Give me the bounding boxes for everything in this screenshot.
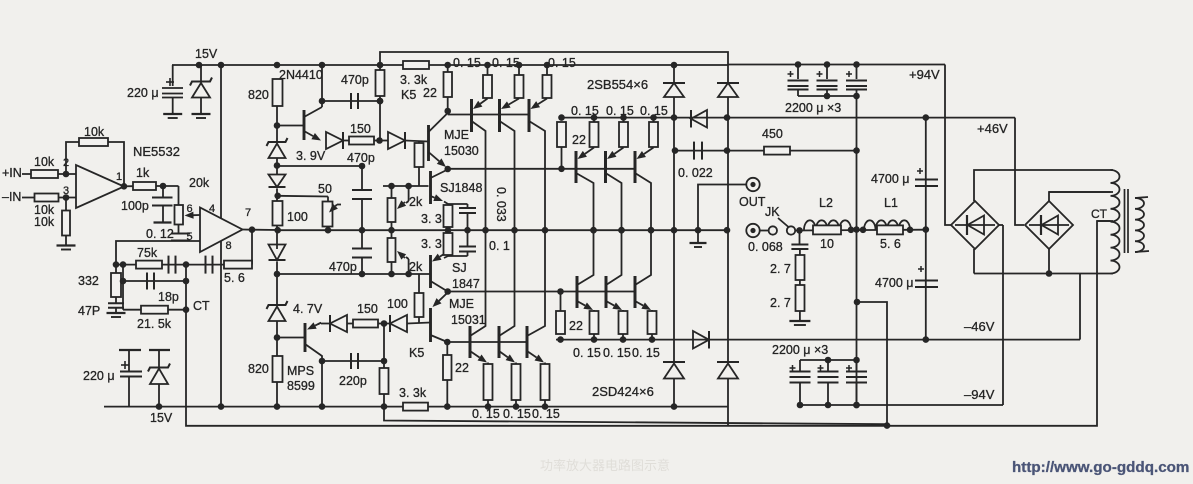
svg-text:4700 μ: 4700 μ (871, 172, 909, 186)
svg-text:0. 022: 0. 022 (678, 166, 713, 180)
svg-text:2SD424×6: 2SD424×6 (592, 384, 654, 399)
svg-text:2. 7: 2. 7 (770, 262, 791, 276)
svg-text:0. 1: 0. 1 (489, 239, 510, 253)
svg-text:1k: 1k (136, 166, 150, 180)
svg-text:CT: CT (1091, 207, 1108, 221)
svg-text:K5: K5 (409, 346, 424, 360)
svg-text:OUT: OUT (739, 195, 766, 209)
svg-text:50: 50 (318, 182, 332, 196)
svg-text:3. 3k: 3. 3k (400, 73, 428, 87)
svg-text:–IN: –IN (2, 190, 21, 204)
svg-text:1: 1 (116, 171, 122, 183)
svg-text:21. 5k: 21. 5k (137, 317, 172, 331)
svg-text:22: 22 (455, 361, 469, 375)
svg-text:0. 15: 0. 15 (573, 346, 601, 360)
svg-text:6: 6 (187, 203, 193, 215)
svg-text:+94V: +94V (909, 67, 940, 82)
svg-text:0. 15: 0. 15 (548, 56, 576, 70)
svg-text:20k: 20k (189, 176, 210, 190)
svg-text:22: 22 (572, 133, 586, 147)
svg-text:K5: K5 (401, 88, 416, 102)
svg-text:470p: 470p (329, 260, 357, 274)
svg-text:功率放大器电路图示意: 功率放大器电路图示意 (540, 458, 670, 473)
svg-text:75k: 75k (137, 246, 158, 260)
svg-text:470p: 470p (347, 151, 375, 165)
svg-text:220 μ: 220 μ (83, 369, 115, 383)
svg-text:150: 150 (357, 302, 378, 316)
svg-text:7: 7 (245, 207, 251, 219)
svg-text:2200 μ ×3: 2200 μ ×3 (772, 343, 828, 357)
svg-text:22: 22 (569, 319, 583, 333)
svg-text:5: 5 (187, 231, 193, 243)
svg-text:3. 3: 3. 3 (421, 237, 442, 251)
svg-text:15030: 15030 (444, 144, 479, 158)
svg-text:0. 15: 0. 15 (632, 346, 660, 360)
svg-text:10k: 10k (34, 215, 55, 229)
svg-text:2k: 2k (409, 260, 423, 274)
svg-text:15V: 15V (195, 47, 218, 61)
svg-text:2200 μ ×3: 2200 μ ×3 (785, 101, 841, 115)
svg-text:SJ: SJ (452, 261, 467, 275)
svg-text:10: 10 (820, 237, 834, 251)
svg-text:100p: 100p (121, 199, 149, 213)
svg-text:4700 μ: 4700 μ (875, 276, 913, 290)
svg-text:–46V: –46V (964, 319, 995, 334)
svg-text:10k: 10k (34, 155, 55, 169)
svg-text:450: 450 (762, 127, 783, 141)
svg-text:CT: CT (193, 299, 210, 313)
svg-text:1847: 1847 (452, 277, 480, 291)
svg-text:3. 3: 3. 3 (421, 212, 442, 226)
svg-text:0. 15: 0. 15 (453, 56, 481, 70)
svg-text:0. 033: 0. 033 (494, 187, 508, 222)
svg-text:JK: JK (765, 205, 780, 219)
svg-text:820: 820 (248, 88, 269, 102)
svg-text:2SB554×6: 2SB554×6 (587, 77, 648, 92)
svg-text:2N4410: 2N4410 (279, 68, 323, 82)
svg-text:22: 22 (423, 86, 437, 100)
svg-text:4: 4 (209, 203, 215, 215)
svg-text:2k: 2k (409, 195, 423, 209)
svg-text:15V: 15V (150, 411, 173, 425)
svg-text:332: 332 (78, 274, 99, 288)
svg-text:10k: 10k (84, 125, 105, 139)
svg-text:+46V: +46V (977, 121, 1008, 136)
svg-text:3: 3 (63, 185, 69, 197)
svg-text:100: 100 (287, 210, 308, 224)
svg-text:0. 15: 0. 15 (492, 56, 520, 70)
svg-text:8599: 8599 (287, 379, 315, 393)
svg-text:MJE: MJE (444, 128, 469, 142)
svg-text:18p: 18p (158, 290, 179, 304)
svg-text:8: 8 (226, 240, 232, 252)
svg-text:L2: L2 (819, 196, 833, 210)
svg-text:470p: 470p (341, 73, 369, 87)
svg-text:5. 6: 5. 6 (880, 237, 901, 251)
svg-text:http://www.go-gddq.com: http://www.go-gddq.com (1012, 459, 1189, 476)
svg-text:3. 3k: 3. 3k (399, 386, 427, 400)
svg-text:3. 9V: 3. 9V (296, 149, 326, 163)
svg-text:0. 068: 0. 068 (748, 240, 783, 254)
svg-text:MPS: MPS (287, 364, 314, 378)
svg-text:+IN: +IN (2, 166, 22, 180)
svg-text:SJ1848: SJ1848 (440, 181, 482, 195)
svg-text:0. 15: 0. 15 (606, 104, 634, 118)
svg-text:220 μ: 220 μ (127, 86, 159, 100)
svg-text:MJE: MJE (449, 297, 474, 311)
svg-text:NE5532: NE5532 (133, 144, 180, 159)
svg-text:0. 12: 0. 12 (146, 227, 174, 241)
svg-text:5. 6: 5. 6 (224, 271, 245, 285)
svg-text:0. 15: 0. 15 (603, 346, 631, 360)
svg-text:47P: 47P (78, 304, 100, 318)
svg-text:2. 7: 2. 7 (770, 296, 791, 310)
svg-text:100: 100 (387, 297, 408, 311)
svg-text:150: 150 (350, 122, 371, 136)
svg-text:4. 7V: 4. 7V (293, 302, 323, 316)
svg-text:15031: 15031 (451, 313, 486, 327)
svg-text:820: 820 (248, 362, 269, 376)
svg-text:–94V: –94V (964, 387, 995, 402)
svg-text:220p: 220p (339, 374, 367, 388)
svg-text:L1: L1 (884, 196, 898, 210)
